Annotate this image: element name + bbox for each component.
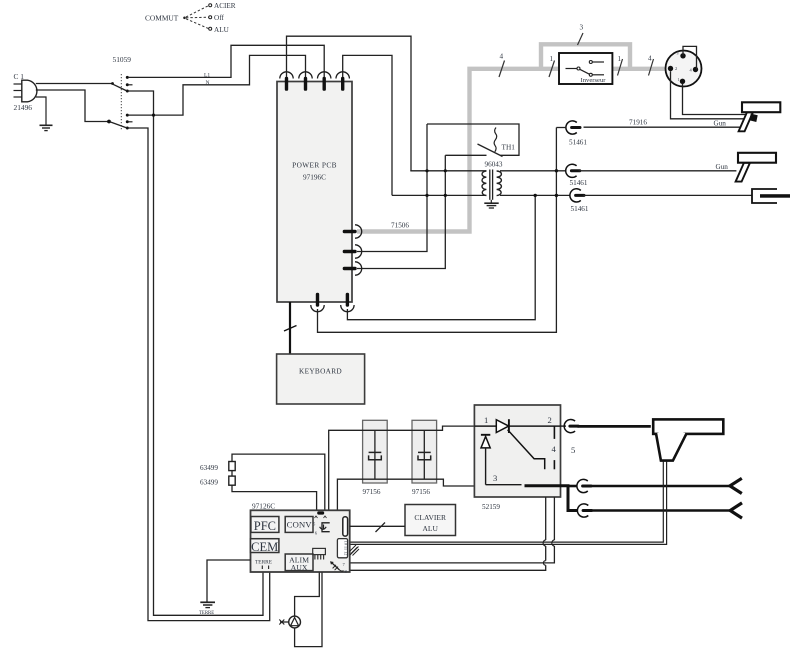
svg-text:CEM: CEM xyxy=(251,540,278,554)
connector pins right of POWER PCB xyxy=(343,225,362,238)
wire plug to switch pole2 xyxy=(36,90,108,122)
svg-text:4: 4 xyxy=(648,55,652,63)
wire 52159 pin A down to PCB 97126C pin 8 xyxy=(350,497,546,570)
wire DC bus bottom (PCB 97126C to 52159) xyxy=(337,479,474,511)
svg-text:1: 1 xyxy=(678,77,680,82)
wire PCB to CLAVIER ALU with slash xyxy=(350,523,405,533)
switch 51059 (double pole mains switch) xyxy=(107,55,132,131)
wire POWER PCB bottom left pin to 51461 net B xyxy=(318,128,557,333)
svg-text:51059: 51059 xyxy=(113,55,132,64)
clamp 1 xyxy=(730,478,742,493)
wire 51461 top to net B vertical xyxy=(556,127,566,129)
svg-text:POWER PCB: POWER PCB xyxy=(292,161,337,170)
CONV block xyxy=(285,517,313,533)
wire DC bus top (PCB 97126C to 52159) xyxy=(329,426,475,511)
DIN gun connector (4 pin) xyxy=(666,46,702,86)
svg-text:71916: 71916 xyxy=(629,119,647,127)
svg-text:1: 1 xyxy=(618,55,622,63)
earth ground TERRE xyxy=(199,602,215,616)
wire 71916 from 51461 to gun1 xyxy=(584,119,742,128)
heatsink comb icon xyxy=(313,548,326,559)
svg-text:AUX: AUX xyxy=(291,563,308,572)
wire POWER PCB pin1 to TH1 loop xyxy=(287,36,412,171)
svg-text:CLAVIER: CLAVIER xyxy=(414,513,446,522)
svg-text:1: 1 xyxy=(484,415,488,425)
gun 2 (alu torch) xyxy=(716,153,777,182)
svg-text:4: 4 xyxy=(500,53,504,61)
connector 51461 (top) xyxy=(566,121,587,147)
inverseur switch box xyxy=(559,53,612,84)
clamp 2 xyxy=(730,503,742,518)
svg-text:3: 3 xyxy=(580,24,584,32)
wire POWER PCB bottom right pin to secondary net A xyxy=(347,196,535,320)
svg-text:21496: 21496 xyxy=(14,103,33,112)
svg-text:L1: L1 xyxy=(204,73,210,79)
svg-text:71506: 71506 xyxy=(391,222,409,230)
connector marks pins 3 4 xyxy=(315,516,327,518)
cable bundle hatch xyxy=(350,545,360,556)
POWER PCB 97196C xyxy=(277,82,352,303)
svg-text:N: N xyxy=(206,80,210,86)
svg-text:TERRE: TERRE xyxy=(255,560,273,566)
capacitor 97156 (left) xyxy=(363,420,388,496)
wire DIN pin1 to gun1 xyxy=(683,84,752,115)
control PCB 97126C xyxy=(251,502,350,573)
CEM block xyxy=(251,539,279,554)
wire transformer secondary bottom to 51461 xyxy=(500,194,570,196)
svg-text:52159: 52159 xyxy=(482,503,500,511)
svg-text:51461: 51461 xyxy=(569,139,587,147)
svg-text:Gun: Gun xyxy=(714,120,727,128)
wire 3 bottom rail thin-to-thick xyxy=(486,485,578,511)
svg-text:TH1: TH1 xyxy=(502,143,516,152)
commut selector COMMUT / ACIER / Off / ALU xyxy=(145,2,236,34)
PFC block xyxy=(251,517,279,534)
ground at transformer 96043 xyxy=(484,200,498,208)
fan motor xyxy=(279,573,322,647)
wire plug to switch pole1 xyxy=(36,83,112,85)
connector pins top of POWER PCB xyxy=(280,72,293,91)
wire L1 switch to POWER PCB pin3 xyxy=(128,45,324,78)
contactor blade inside 52159 xyxy=(508,430,545,470)
TERRE pins on PCB xyxy=(255,560,273,570)
svg-text:Gun: Gun xyxy=(716,163,729,171)
cable hatch marks and conductor-count labels on grey cable xyxy=(499,33,654,77)
svg-text:3: 3 xyxy=(677,51,679,56)
wire resistors to PCB 97126C xyxy=(232,454,325,511)
svg-text:97126C: 97126C xyxy=(252,502,275,511)
svg-text:Off: Off xyxy=(214,14,224,22)
wire switch pole1 down to PCB 97126C earth loop (inner) xyxy=(128,91,263,615)
thick cable to stud gun xyxy=(578,425,651,428)
pin 4 link with break xyxy=(553,426,555,469)
wire transformer primary top xyxy=(410,170,486,172)
svg-text:51461: 51461 xyxy=(570,179,588,187)
svg-text:KEYBOARD: KEYBOARD xyxy=(299,367,342,376)
svg-text:ALU: ALU xyxy=(214,26,230,34)
connector 10 11 12 xyxy=(337,539,348,558)
svg-text:1: 1 xyxy=(550,55,554,63)
svg-text:Inverseur: Inverseur xyxy=(581,77,607,84)
svg-text:ALU: ALU xyxy=(422,524,438,533)
svg-text:96043: 96043 xyxy=(485,161,503,169)
mains input connector pill on PCB top xyxy=(317,511,324,514)
svg-text:COMMUT: COMMUT xyxy=(145,14,179,23)
svg-text:10 11 12: 10 11 12 xyxy=(344,541,349,556)
svg-text:TERRE: TERRE xyxy=(199,611,214,616)
connector output clamp B2 xyxy=(577,504,593,517)
resistor 63499 (upper) xyxy=(200,462,235,473)
thermostat TH1 xyxy=(427,124,519,157)
thick cable to clamp 1 xyxy=(591,485,730,488)
clavier connector 5 6 with hook xyxy=(313,522,330,536)
svg-text:PFC: PFC xyxy=(254,519,276,533)
diode D2 (vertical freewheel) xyxy=(481,435,490,485)
svg-text:CONV: CONV xyxy=(287,520,313,530)
connector pins bottom of POWER PCB xyxy=(311,293,324,312)
connector output clamp B1 xyxy=(577,479,593,492)
wire POWER PCB to KEYBOARD with cable slash xyxy=(284,302,297,354)
stud gun trigger pair wires xyxy=(348,462,667,545)
svg-text:51461: 51461 xyxy=(571,205,589,213)
resistor 63499 (lower) xyxy=(200,476,235,486)
capacitor 97156 (right) xyxy=(412,420,437,496)
ground at plug C1 xyxy=(36,97,53,131)
wire DIN pin2 to gun1 xyxy=(671,71,750,119)
wire 51461 middle to gun2 xyxy=(579,170,737,172)
wire PCB to TERRE earth xyxy=(207,560,251,602)
stud gun (T shaped) xyxy=(653,419,723,460)
svg-text:63499: 63499 xyxy=(200,479,218,487)
wire transformer primary bottom xyxy=(392,194,486,196)
transformer 96043 xyxy=(482,161,503,200)
crossover hop marks xyxy=(543,540,554,565)
svg-text:2: 2 xyxy=(675,66,677,71)
junction dots TH1 / primary nets xyxy=(425,169,558,197)
wire N switch to POWER PCB pin2 xyxy=(128,55,306,115)
wire transformer secondary top to 51461 xyxy=(500,170,566,172)
connector 51461 (bottom) xyxy=(570,189,589,213)
connector output positive xyxy=(561,425,567,427)
earth clamp tool (flat) xyxy=(752,189,790,203)
wire POWER PCB right pin3 to TH1 moving contact xyxy=(357,155,445,268)
diode D1 (series, on positive rail) xyxy=(474,419,560,433)
svg-text:97156: 97156 xyxy=(363,488,381,496)
gun 1 (acier torch) xyxy=(714,102,781,131)
ALIM AUX block xyxy=(285,554,313,572)
svg-text:97156: 97156 xyxy=(412,488,430,496)
rectifier block 52159 xyxy=(474,405,575,511)
wire 52159 pin B down to PCB 97126C pin 7 xyxy=(350,497,555,563)
wire switch pole2 down to PCB 97126C earth loop (outer) xyxy=(128,128,270,621)
svg-text:2: 2 xyxy=(548,415,552,425)
svg-text:ACIER: ACIER xyxy=(214,2,236,10)
CLAVIER ALU box xyxy=(405,505,456,536)
wire POWER PCB right pin2 to TH1 xyxy=(357,124,427,252)
wire 71506 (shielded grey cable from POWER PCB to Inverseur and DIN plug) xyxy=(357,44,665,231)
wire POWER PCB pin4 to transformer primary bottom xyxy=(343,55,392,195)
connector 51461 (middle) xyxy=(566,164,588,187)
svg-text:3: 3 xyxy=(493,473,497,483)
tall connector capsule xyxy=(343,517,348,536)
wire 51461 bottom to earth clamp tool xyxy=(583,194,753,196)
plug C1 21496 (mains plug) xyxy=(14,72,37,112)
svg-text:4: 4 xyxy=(552,444,557,454)
junction switch net xyxy=(152,114,155,117)
svg-text:5: 5 xyxy=(571,445,575,455)
trigger output pins 7 8 with arrow icon xyxy=(330,561,348,574)
svg-text:97196C: 97196C xyxy=(303,173,326,182)
svg-text:63499: 63499 xyxy=(200,464,218,472)
thick cable to clamp 2 xyxy=(591,509,730,512)
KEYBOARD box xyxy=(277,354,365,404)
